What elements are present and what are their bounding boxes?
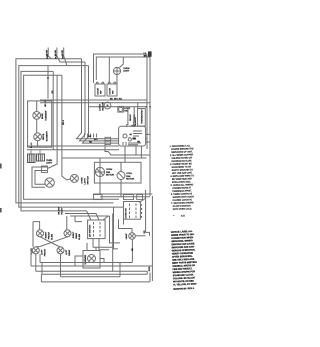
label warmer — [84, 254, 87, 264]
wire right bus lower left — [146, 190, 150, 236]
wire bundle line 196.7 — [100, 196, 150, 198]
wire left drop x113.5 — [114, 207, 119, 249]
oven lamp2 — [129, 233, 136, 240]
svg-text:ELEMENT: ELEMENT — [46, 130, 48, 141]
svg-text:WH: WH — [62, 55, 64, 59]
wire switch A right drops — [110, 214, 121, 248]
wire plug drops — [31, 150, 40, 155]
svg-text:ELEM: ELEM — [51, 234, 53, 240]
wire console inner vertical — [108, 57, 110, 83]
svg-text:BLK: BLK — [56, 54, 58, 59]
wire connector to jog — [105, 144, 150, 155]
broil element E2 — [34, 133, 42, 141]
wire right bus outer — [146, 54, 148, 149]
scan artifact left edge 2 — [0, 208, 2, 212]
wire switch B top jog — [139, 197, 145, 203]
label surface element RR — [73, 231, 75, 238]
label thermostat vertical — [140, 109, 143, 124]
svg-text:RED: RED — [149, 266, 151, 271]
svg-text:MOTOR: MOTOR — [126, 178, 134, 180]
svg-text:BK-WH: BK-WH — [59, 207, 61, 215]
label under broil — [31, 142, 33, 148]
wire lamp2 bottom drop — [131, 239, 133, 262]
svg-text:LIGHT: LIGHT — [46, 163, 53, 165]
latch motor — [104, 102, 111, 109]
svg-text:INSULATION 105C.: INSULATION 105C. — [172, 180, 191, 184]
label box top vertical — [45, 100, 47, 107]
svg-text:NOT USE GAS LINE.: NOT USE GAS LINE. — [172, 171, 193, 175]
wire neutral left loop B — [19, 66, 124, 208]
svg-text:SENSOR: SENSOR — [135, 117, 137, 126]
infinite switch box right — [124, 202, 141, 220]
wire bundle line 216 — [70, 216, 108, 220]
wire element drop — [36, 101, 39, 147]
svg-text:DOOR: DOOR — [98, 88, 100, 95]
svg-text:CONNECTIONS AT: CONNECTIONS AT — [172, 186, 192, 190]
label courtesy lamp — [82, 177, 84, 184]
wire motor feeds — [100, 158, 121, 197]
label sensor vertical — [135, 117, 137, 126]
label oven lamp2 vertical — [125, 233, 128, 239]
svg-text:MOTOR: MOTOR — [106, 174, 114, 176]
svg-text:2. ALL WIRES COPPER: 2. ALL WIRES COPPER — [170, 153, 194, 157]
wire harness line A — [27, 145, 119, 147]
svg-text:OVEN: OVEN — [82, 177, 84, 184]
svg-text:DELAY: DELAY — [129, 114, 132, 121]
label broil element vertical — [43, 133, 45, 140]
svg-text:BROIL: BROIL — [43, 133, 45, 140]
warmer lamp — [88, 255, 96, 263]
wire supply stub BLK — [57, 48, 85, 63]
wire right bus inner — [149, 57, 151, 196]
label bake element vertical — [41, 113, 44, 119]
convection motor M1 — [95, 167, 104, 176]
connector clock left — [105, 137, 111, 144]
wire branch to bake control — [47, 66, 49, 99]
svg-text:TERMINALS FIRST.: TERMINALS FIRST. — [172, 189, 192, 193]
wire mid vertical bus 2 — [80, 62, 119, 141]
wire bundle line 194 — [93, 193, 152, 195]
connector tick row — [85, 134, 97, 138]
svg-text:5. CHECK ALL WIRING: 5. CHECK ALL WIRING — [171, 183, 194, 187]
label bake feed — [52, 90, 54, 94]
svg-text:LEFT: LEFT — [66, 249, 68, 255]
surface element RF — [37, 230, 44, 237]
connector plug P1 — [28, 154, 36, 163]
wire bottom run 275 — [61, 254, 121, 277]
label blob WH stub — [61, 50, 63, 53]
label infinite switch left vertical — [88, 224, 91, 236]
svg-text:BK-23: BK-23 — [45, 100, 47, 107]
connector inline C1 — [94, 195, 103, 200]
label blob BLK stub — [55, 50, 57, 53]
label left of LF — [31, 248, 33, 255]
wire clock right taps — [146, 134, 151, 142]
courtesy lamp — [70, 174, 78, 182]
svg-text:EARTH GROUND DO: EARTH GROUND DO — [172, 168, 194, 172]
svg-text:OVEN SW: OVEN SW — [125, 207, 127, 218]
wire run Y103 — [40, 102, 150, 104]
svg-text:RD: RD — [52, 90, 54, 94]
label oven temp vertical 1 — [129, 114, 132, 121]
svg-text:WH: WH — [94, 139, 98, 141]
note text block lower right — [171, 230, 198, 291]
thermostat body box — [138, 109, 146, 127]
wire diagonal cross 1 — [40, 237, 61, 247]
svg-text:LAMP: LAMP — [125, 233, 128, 239]
wire mid vertical bus 1 — [77, 59, 119, 139]
label RED small — [144, 230, 146, 234]
wire bottom run 266 — [31, 252, 152, 266]
svg-text:RIGHT: RIGHT — [73, 231, 75, 238]
wire run Y106.8 — [88, 106, 147, 108]
lamp terminal block — [42, 166, 48, 173]
blower enclosure — [94, 162, 141, 183]
wire supply stub RED — [48, 48, 51, 59]
svg-text:MOTOR: MOTOR — [103, 102, 105, 110]
node junctions right bus — [146, 106, 148, 108]
wire bundle line 213.5 — [65, 214, 99, 221]
wire bottom run 272.3 — [42, 263, 147, 275]
wire oven lamp2 corner — [119, 219, 133, 233]
svg-text:REAR: REAR — [68, 249, 71, 255]
wire loop feed — [48, 75, 58, 168]
infinite switch box left — [88, 220, 106, 239]
wire mid vertical bus 3 — [83, 66, 119, 144]
wire left loop C — [21, 71, 91, 220]
label surface element LR — [66, 249, 68, 255]
label wire WH at stub — [62, 55, 64, 59]
connector inline C3 — [137, 195, 143, 200]
wire clock feeds — [127, 103, 138, 127]
svg-text:6. TIMER CONTACTS: 6. TIMER CONTACTS — [171, 192, 193, 196]
door switch S2 — [107, 82, 117, 96]
label infinite switch right vertical — [125, 207, 127, 218]
wire supply stub WH — [64, 48, 67, 66]
svg-text:ELEMENT: ELEMENT — [46, 110, 48, 121]
svg-text:BAKE: BAKE — [41, 113, 44, 119]
wire branch bake box right — [52, 71, 54, 149]
wire bottom run 262 — [40, 254, 132, 263]
surface element LR — [57, 247, 64, 254]
wire oven light feed vertical — [62, 75, 71, 180]
label blob on third vertical — [63, 119, 65, 125]
svg-text:3. CABINET MUST BE: 3. CABINET MUST BE — [170, 162, 192, 166]
svg-text:FRONT: FRONT — [44, 248, 46, 256]
wire harness line B — [27, 149, 119, 151]
svg-text:CLOSED LATCH IN.: CLOSED LATCH IN. — [172, 198, 192, 202]
label door switch S2 — [110, 88, 112, 95]
wire warmer feeds — [87, 239, 113, 251]
label wire BLK at stub — [56, 54, 58, 59]
wire L1 left outer loop — [16, 59, 114, 203]
wire element RF feed — [33, 222, 82, 247]
label latch motor vertical — [99, 104, 102, 111]
wire diagonal cross 2 — [36, 237, 68, 247]
svg-text:FRONT: FRONT — [48, 231, 50, 239]
wire element RR feed — [67, 216, 75, 230]
svg-text:RD: RD — [144, 230, 146, 234]
node junction dot — [47, 77, 48, 78]
console box top edge — [94, 54, 151, 83]
oven cavity lamp — [113, 67, 120, 74]
svg-text:THERMOSTAT: THERMOSTAT — [140, 109, 143, 124]
svg-text:LIGHT: LIGHT — [85, 178, 87, 185]
surface element RR — [64, 230, 71, 237]
svg-text:* N.O.: * N.O. — [173, 215, 185, 217]
svg-text:DIAGRAM AS ALUM.: DIAGRAM AS ALUM. — [171, 159, 192, 163]
label BLK vertical small — [132, 248, 134, 251]
wire bottom run 269 — [36, 254, 148, 271]
wire bottom drops misc — [75, 247, 120, 276]
label L1 terminal — [144, 53, 148, 58]
label blob RED stub — [46, 50, 48, 53]
svg-text:RD: RD — [89, 142, 93, 144]
label RED bottom vertical — [149, 266, 151, 271]
door switch S1 — [95, 82, 105, 96]
label surface element RF — [45, 231, 47, 238]
svg-text:RD-5: RD-5 — [63, 119, 65, 125]
svg-text:FAN: FAN — [106, 171, 111, 174]
label door switch S1 — [98, 88, 100, 95]
connector plug P2 — [37, 154, 45, 161]
clock timer — [119, 126, 146, 146]
oven lamp bulb — [45, 178, 54, 187]
note text block upper right — [170, 144, 196, 217]
svg-text:SWITCH: SWITCH — [88, 176, 90, 185]
warmer box — [83, 251, 100, 269]
oven lamp loop — [32, 167, 48, 187]
label oven temp vertical 2 — [134, 114, 136, 121]
wire lamp drop — [117, 57, 123, 84]
svg-text:GROUNDED TO AN: GROUNDED TO AN — [172, 165, 192, 169]
svg-text:ELEM: ELEM — [79, 234, 81, 240]
connector inline C2 — [124, 195, 134, 200]
label bundle colors stack — [59, 207, 61, 215]
svg-text:LIGHT: LIGHT — [123, 70, 130, 72]
wire right bus lower long — [151, 196, 153, 281]
bake control box — [28, 101, 52, 147]
wire clock drops — [125, 147, 141, 163]
label surface element LF — [41, 249, 43, 255]
svg-text:1. DISCONNECT ALL: 1. DISCONNECT ALL — [170, 144, 192, 148]
cooling fan M2 — [117, 172, 125, 180]
wire upper cross line — [62, 157, 147, 159]
svg-text:WH-2: WH-2 — [31, 142, 33, 148]
wire run Y100 — [40, 99, 147, 101]
svg-text:4. REPLACED WIRE TO: 4. REPLACED WIRE TO — [170, 174, 194, 178]
svg-text:LATCH: LATCH — [99, 104, 102, 111]
svg-text:FAN: FAN — [126, 175, 131, 178]
svg-text:RD-GY: RD-GY — [62, 207, 64, 214]
latch switch box — [118, 106, 124, 112]
svg-text:REAR: REAR — [75, 232, 78, 238]
label wire RED at stub — [47, 54, 49, 59]
wire left loop D — [24, 75, 119, 199]
svg-text:BE SAME SIZE AND: BE SAME SIZE AND — [172, 177, 192, 181]
bake element E1 — [33, 112, 41, 120]
surface element LF — [32, 247, 39, 254]
svg-text:RED: RED — [47, 54, 49, 59]
wire bottom run 279 — [41, 273, 150, 282]
svg-text:AR SWITCH: AR SWITCH — [88, 224, 91, 236]
wire lamp2 right RED — [135, 235, 145, 237]
svg-text:RIGHT: RIGHT — [45, 231, 47, 238]
scan artifact left edge 1 — [0, 164, 2, 169]
svg-text:LEFT: LEFT — [41, 249, 43, 255]
svg-text:DOOR: DOOR — [110, 88, 112, 95]
